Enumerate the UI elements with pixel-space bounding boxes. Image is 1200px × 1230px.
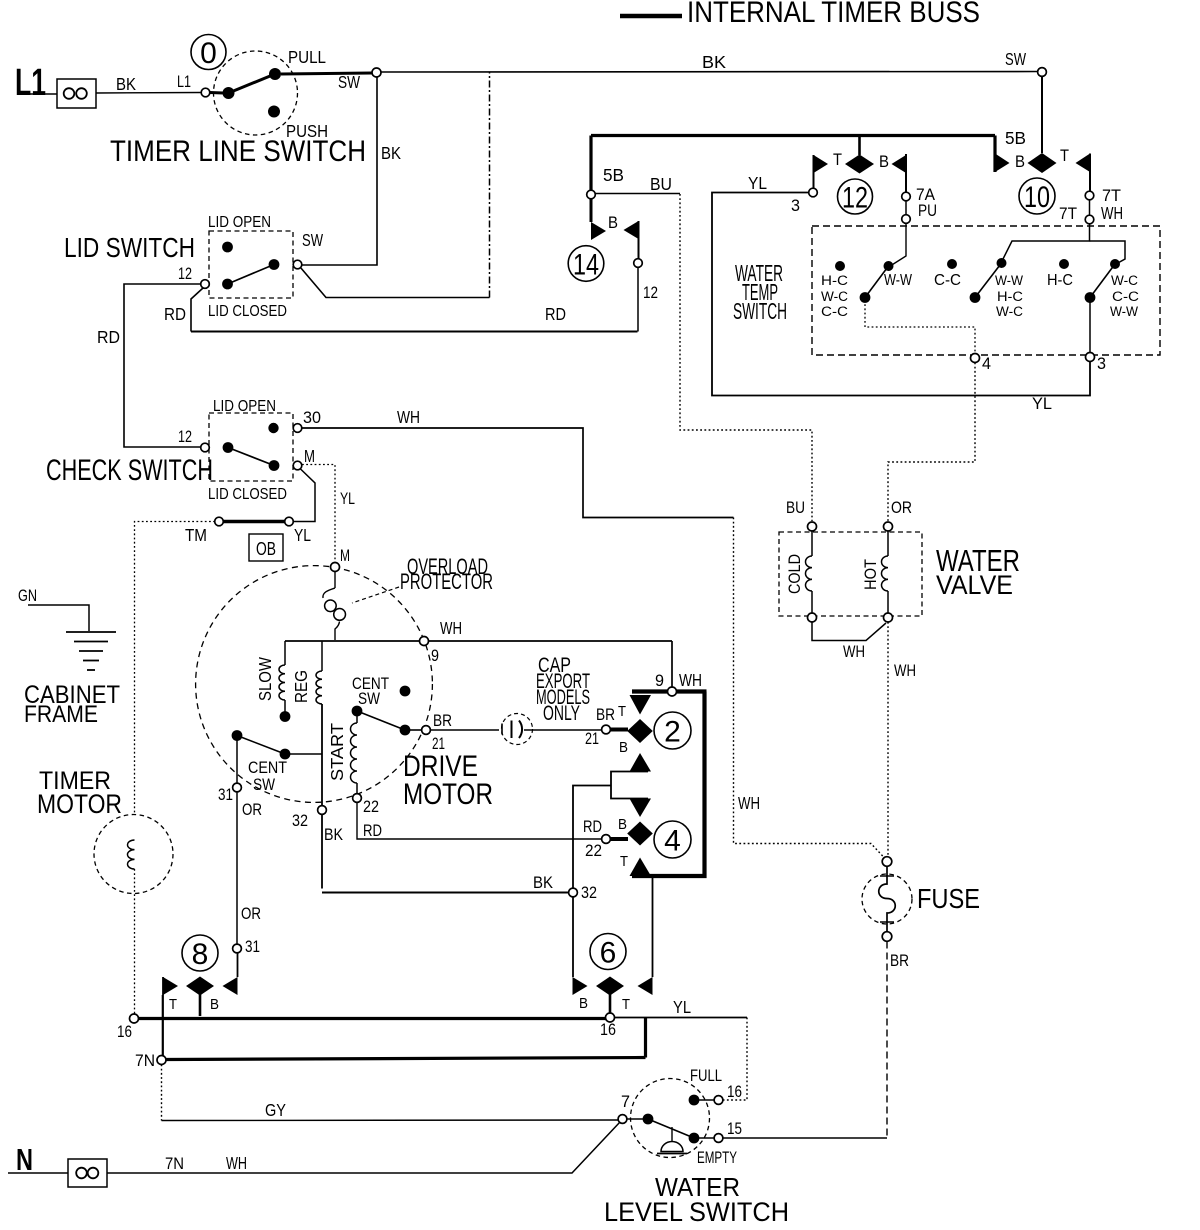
label BK top <box>702 52 726 72</box>
terminal 7T WH <box>1085 215 1094 224</box>
svg-text:16: 16 <box>117 1023 132 1041</box>
title WATER LEVEL SWITCH <box>604 1172 789 1227</box>
wire rail 16 YL extension <box>615 1017 748 1019</box>
capacitor C1 <box>502 714 533 745</box>
label CENT SW right <box>352 675 389 708</box>
label YL top <box>748 173 767 193</box>
svg-text:16: 16 <box>727 1083 742 1101</box>
motor terminal 32 <box>318 806 327 815</box>
svg-text:SW: SW <box>358 690 380 708</box>
label H-C <box>1047 272 1073 289</box>
cam 8 follower diamond <box>186 977 214 996</box>
wire FULL contact to 16 <box>699 1099 714 1101</box>
svg-text:YL: YL <box>294 525 311 545</box>
cam 2 B contact arrow <box>630 753 652 772</box>
svg-text:W-W: W-W <box>884 272 912 289</box>
temp switch terminal 3 <box>1086 353 1095 362</box>
drive motor dashed housing <box>196 566 433 803</box>
level switch terminal 15 <box>714 1134 723 1143</box>
label 32 (node) <box>581 884 597 902</box>
wire BK drop to lid switch <box>302 77 378 265</box>
svg-text:MOTOR: MOTOR <box>403 778 493 811</box>
svg-text:YL: YL <box>340 490 355 508</box>
timer line switch terminal L1 <box>201 88 210 97</box>
terminal L1 label <box>15 62 46 104</box>
label BR (connector) <box>596 706 615 724</box>
label 15 <box>727 1120 742 1138</box>
wire TM to timer motor <box>135 522 216 816</box>
cam 6 follower diamond <box>596 977 624 996</box>
wire GY run <box>162 1119 619 1122</box>
wire cam 14 terminal 12 to RD run <box>637 268 639 332</box>
svg-text:7T: 7T <box>1059 205 1077 223</box>
svg-text:C-C: C-C <box>821 304 848 319</box>
label B (cam 2) <box>619 739 628 756</box>
wire 7N rail riser to 16 rail <box>644 1018 647 1058</box>
svg-text:LID CLOSED: LID CLOSED <box>208 486 287 503</box>
temp switch contact W-C upper <box>1110 259 1120 269</box>
svg-text:0: 0 <box>200 37 217 70</box>
svg-text:7N: 7N <box>135 1052 155 1070</box>
svg-text:SW: SW <box>338 72 360 92</box>
label 21 (motor) <box>432 735 445 753</box>
motor terminal 21 <box>422 726 431 735</box>
svg-text:BU: BU <box>786 499 805 517</box>
svg-text:3: 3 <box>791 197 800 215</box>
svg-text:TM: TM <box>185 525 207 545</box>
timer line switch common stub <box>210 91 223 95</box>
wire RD lid sw 12 to check sw 12 <box>124 284 201 447</box>
svg-text:START: START <box>327 723 347 781</box>
wire 5B drop to node <box>589 136 592 191</box>
svg-text:SW: SW <box>1005 49 1026 69</box>
check switch terminal 30 <box>293 424 302 433</box>
wire cam 6 stem to terminal 16 <box>609 991 612 1013</box>
svg-text:OR: OR <box>242 801 262 819</box>
svg-text:BK: BK <box>324 826 343 844</box>
timer cam 14 circle <box>568 246 604 282</box>
label SLOW <box>255 657 275 701</box>
timer cam 12 follower diamond <box>845 155 874 174</box>
cabinet frame ground symbol <box>66 632 116 670</box>
svg-text:LID SWITCH: LID SWITCH <box>64 232 195 263</box>
cam 12 terminal 3 <box>809 188 818 197</box>
cam 8 terminal 31 <box>233 944 242 953</box>
motor terminal 22 <box>353 794 362 803</box>
svg-text:10: 10 <box>1024 181 1050 214</box>
svg-text:M: M <box>340 547 350 565</box>
label WH (terminal 9) <box>440 618 462 638</box>
svg-text:BR: BR <box>890 952 909 970</box>
level switch EMPTY contact <box>689 1133 700 1144</box>
label T (cam 2) <box>618 703 626 720</box>
label FUSE <box>917 883 980 914</box>
svg-text:12: 12 <box>178 265 192 283</box>
svg-text:31: 31 <box>218 786 233 804</box>
wire cam 12 B bar to terminal 7A <box>905 154 907 192</box>
label 16 left <box>117 1023 132 1041</box>
label BR (21) <box>433 712 452 730</box>
label 12 (lid switch) <box>178 265 192 283</box>
wire cam 8 B bar to 31 <box>237 953 239 977</box>
wire WH from check switch 30 <box>302 428 734 518</box>
svg-text:OB: OB <box>256 539 276 559</box>
svg-text:TIMER LINE SWITCH: TIMER LINE SWITCH <box>110 135 366 168</box>
svg-text:INTERNAL TIMER BUSS: INTERNAL TIMER BUSS <box>687 0 980 29</box>
svg-text:EMPTY: EMPTY <box>697 1149 737 1167</box>
water valve hot lower terminal <box>884 613 893 622</box>
wire contact to terminal 21 <box>405 729 421 731</box>
water level switch dashed housing <box>631 1079 710 1158</box>
timer cam 0 circle <box>191 35 226 70</box>
temp switch contact C-C <box>947 259 957 269</box>
check switch closed contact <box>269 460 280 471</box>
label T (cam 10) <box>1060 147 1069 165</box>
svg-text:WH: WH <box>440 618 462 638</box>
motor terminal M <box>331 563 340 572</box>
svg-text:PROTECTOR: PROTECTOR <box>400 569 493 594</box>
svg-text:B: B <box>210 996 219 1013</box>
svg-text:OR: OR <box>241 905 261 923</box>
level switch terminal 7 <box>618 1115 627 1124</box>
temp switch contact H-C <box>1059 259 1069 269</box>
terminal 16 left <box>130 1014 139 1023</box>
svg-text:L1: L1 <box>15 62 46 104</box>
wire BR fuse riser <box>886 942 888 1139</box>
timer line switch terminal SW <box>372 68 381 77</box>
svg-text:WH: WH <box>1101 203 1123 223</box>
svg-text:T: T <box>169 996 177 1013</box>
svg-text:YL: YL <box>673 997 691 1017</box>
svg-text:WH: WH <box>397 407 420 427</box>
wire reg winding down to node 32 <box>321 704 323 889</box>
label YL (TM bar) <box>294 525 311 545</box>
timer cam 10 follower diamond <box>1028 153 1057 173</box>
node 5B <box>587 190 596 199</box>
svg-text:FUSE: FUSE <box>917 883 980 914</box>
svg-text:GN: GN <box>18 587 37 605</box>
water valve cold lower terminal <box>808 613 817 622</box>
label 9 (connector) <box>655 672 664 690</box>
overload protector <box>323 572 346 641</box>
label 22 (connector) <box>585 842 602 860</box>
label PU <box>918 202 937 220</box>
label 7A <box>916 186 935 204</box>
wire 7 to common <box>627 1118 643 1120</box>
terminal TM <box>215 517 224 526</box>
level switch FULL contact <box>689 1095 700 1106</box>
label GY <box>265 1100 286 1120</box>
wire 15 to BR riser <box>723 1137 887 1139</box>
pressure dome float <box>657 1127 687 1154</box>
title WATER TEMP SWITCH <box>733 260 787 324</box>
svg-text:COLD: COLD <box>786 554 804 594</box>
wire N lead-in <box>8 1172 68 1174</box>
water valve cold solenoid <box>805 531 812 613</box>
cam 2 follower diamond <box>627 719 653 743</box>
label YL (rail) <box>673 997 691 1017</box>
wire rail 7N <box>166 1058 646 1060</box>
label COLD <box>786 554 804 594</box>
svg-text:VALVE: VALVE <box>936 570 1013 600</box>
centrifugal switch left pivot <box>232 730 243 741</box>
label T (cam 4) <box>620 853 628 870</box>
temp switch contact H-C/W-C/C-C <box>835 261 845 271</box>
label RD (22) <box>363 822 382 840</box>
labels H-C W-C C-C <box>821 273 848 319</box>
svg-text:7: 7 <box>621 1093 630 1111</box>
label WH under valve <box>843 643 865 661</box>
temp switch arm 2 <box>975 263 1002 298</box>
svg-text:21: 21 <box>585 730 599 748</box>
label B (cam 6) <box>579 995 588 1012</box>
timer cam 8 circle <box>182 935 218 971</box>
centrifugal switch left contact <box>280 749 291 760</box>
terminal 16 right <box>606 1013 615 1022</box>
timer cam 12 T contact arrow <box>814 155 829 173</box>
temp switch arm 1 <box>865 266 889 298</box>
label L1 terminal <box>177 73 191 91</box>
title CABINET FRAME <box>24 681 120 728</box>
wire cent sw pivot to terminal 31 <box>236 740 238 783</box>
slow winding <box>279 641 285 712</box>
cam 8 B contact arrow <box>223 977 238 995</box>
wire GN to ground <box>28 605 89 631</box>
wire YL from cam 12 terminal 3 <box>712 193 1090 396</box>
cam 4 follower diamond <box>627 822 653 846</box>
svg-text:W-C: W-C <box>1111 273 1138 288</box>
svg-text:W-W: W-W <box>995 273 1023 288</box>
svg-text:8: 8 <box>192 938 209 971</box>
svg-text:ONLY: ONLY <box>543 702 580 725</box>
svg-text:B: B <box>619 739 628 756</box>
label 32 (motor) <box>292 812 308 830</box>
label WH valve drop <box>894 662 916 680</box>
motor top rail WH <box>285 640 672 642</box>
svg-text:9: 9 <box>655 672 664 690</box>
OB designation box <box>249 534 283 561</box>
check switch arm <box>228 448 274 466</box>
label 7T right <box>1102 187 1121 205</box>
timer cam 6 circle <box>590 934 626 970</box>
svg-text:PULL: PULL <box>288 47 326 67</box>
centrifugal switch right pivot <box>352 706 363 717</box>
centrifugal switch right open contact <box>400 686 411 697</box>
wire SW drop to cam 10 <box>1041 77 1043 154</box>
wire WH riser to fuse <box>734 518 885 859</box>
check switch common contact <box>223 442 234 453</box>
svg-text:9: 9 <box>431 647 439 665</box>
timer cam 14 B contact arrow <box>624 221 639 239</box>
check switch terminal M <box>293 461 302 470</box>
svg-text:WH: WH <box>226 1153 247 1173</box>
centrifugal switch left arm <box>237 736 285 755</box>
label PUSH <box>286 121 328 141</box>
svg-text:SW: SW <box>253 776 275 794</box>
label M above motor <box>340 547 350 565</box>
wire BU from 5B node <box>596 193 681 195</box>
label 21 (connector) <box>585 730 599 748</box>
svg-text:14: 14 <box>573 248 599 281</box>
svg-text:H-C: H-C <box>821 273 848 288</box>
lid switch arm <box>228 265 275 285</box>
svg-text:H-C: H-C <box>1047 272 1073 289</box>
centrifugal switch right arm <box>357 711 405 730</box>
svg-text:22: 22 <box>363 798 379 816</box>
svg-text:WH: WH <box>894 662 916 680</box>
svg-text:T: T <box>833 151 842 169</box>
svg-text:T: T <box>620 853 628 870</box>
terminal PU <box>902 215 911 224</box>
temp switch arm 2 pivot <box>970 292 981 303</box>
svg-text:B: B <box>618 816 627 833</box>
wire valve commons WH <box>812 622 886 641</box>
svg-text:BK: BK <box>116 74 136 94</box>
svg-text:W-W: W-W <box>1110 304 1138 319</box>
label BK <box>116 74 136 94</box>
svg-text:WH: WH <box>738 793 760 813</box>
slow winding end contact <box>280 711 291 722</box>
svg-text:31: 31 <box>245 938 260 956</box>
svg-text:21: 21 <box>432 735 445 753</box>
label 7 <box>621 1093 630 1111</box>
svg-text:LID OPEN: LID OPEN <box>208 214 271 231</box>
label 5B (cam 10) <box>1005 128 1026 148</box>
label 9 <box>431 647 439 665</box>
label LID CLOSED (lid switch) <box>208 303 287 320</box>
label 7N (neutral) <box>165 1155 184 1173</box>
wire terminal 4 to OR <box>888 363 975 523</box>
svg-text:12: 12 <box>178 428 192 446</box>
label BK (32) <box>324 826 343 844</box>
lid switch terminal SW <box>293 260 302 269</box>
svg-text:5B: 5B <box>1005 128 1026 148</box>
svg-text:T: T <box>1060 147 1069 165</box>
cam 14 terminal 12 <box>634 259 643 268</box>
wire cam 8 T bar down to 7N <box>162 977 164 1056</box>
label BK bottom <box>533 874 553 892</box>
svg-text:WH: WH <box>843 643 865 661</box>
svg-text:15: 15 <box>727 1120 742 1138</box>
svg-text:3: 3 <box>1097 355 1106 373</box>
svg-text:L1: L1 <box>177 73 191 91</box>
connector block frame <box>632 692 707 877</box>
svg-text:LEVEL SWITCH: LEVEL SWITCH <box>604 1197 789 1227</box>
svg-text:RD: RD <box>97 327 120 347</box>
wire L1 lead-in <box>26 93 57 95</box>
centrifugal switch right contact <box>400 725 411 736</box>
svg-text:32: 32 <box>292 812 308 830</box>
svg-text:HOT: HOT <box>862 559 880 590</box>
label 22 (motor) <box>363 798 379 816</box>
wire 7T to WH terminal <box>1089 200 1091 215</box>
wire cam 10 T bar to terminal 7T <box>1089 154 1091 192</box>
motor terminal 9 <box>420 637 429 646</box>
timer motor feed bar TM-YL <box>223 520 285 524</box>
labels W-W H-C W-C <box>995 273 1023 319</box>
svg-text:RD: RD <box>164 304 186 324</box>
svg-text:RD: RD <box>545 304 566 324</box>
svg-text:SW: SW <box>302 230 323 250</box>
svg-text:LID CLOSED: LID CLOSED <box>208 303 287 320</box>
wire cam 12 T bar to terminal 3 <box>813 155 815 188</box>
connector plug L1 <box>57 79 96 108</box>
title DRIVE MOTOR <box>403 750 493 811</box>
connector plug N <box>68 1159 107 1187</box>
wire temp switch pivot 3 to terminal 3 <box>1089 300 1091 353</box>
label BK vertical <box>381 143 401 163</box>
lid switch open contact <box>222 242 233 253</box>
water temp switch dashed housing <box>812 226 1160 355</box>
svg-text:4: 4 <box>664 824 681 857</box>
label B (cam 12) <box>879 153 889 171</box>
svg-text:OR: OR <box>891 499 912 517</box>
label T (cam 12) <box>833 151 842 169</box>
wire 7T WH into temp switch <box>1002 224 1090 262</box>
wire YL drop to level switch 16 <box>723 1018 747 1101</box>
connector B bracket <box>611 772 648 799</box>
water valve dashed housing <box>779 532 922 616</box>
svg-text:BU: BU <box>650 174 672 194</box>
svg-text:FULL: FULL <box>690 1067 722 1085</box>
label 3 (cam 12) <box>791 197 800 215</box>
wire cam 6 T riser <box>652 876 654 977</box>
overload protector leader line <box>352 587 399 603</box>
label SW <box>338 72 360 92</box>
timer cam 10 T contact arrow <box>1076 154 1091 173</box>
label LID OPEN (lid switch) <box>208 214 271 231</box>
label RD left riser <box>97 327 120 347</box>
timer line switch PULL contact <box>269 68 281 80</box>
temp switch terminal 4 <box>971 354 980 363</box>
wire check M to motor M <box>302 465 335 563</box>
svg-text:PU: PU <box>918 202 937 220</box>
level switch arm <box>648 1119 694 1138</box>
label OR lower <box>241 905 261 923</box>
fuse top terminal <box>882 857 892 867</box>
check switch terminal 12 <box>201 443 210 452</box>
wire PULL contact to SW terminal <box>281 73 372 74</box>
wire GY drop <box>161 1065 163 1121</box>
label EMPTY <box>697 1149 737 1167</box>
title LID SWITCH <box>64 232 195 263</box>
wire 22 to connector <box>357 803 602 840</box>
svg-text:CHECK SWITCH: CHECK SWITCH <box>46 454 213 487</box>
label FULL <box>690 1067 722 1085</box>
svg-text:MOTOR: MOTOR <box>37 789 122 819</box>
label OVERLOAD PROTECTOR <box>400 554 493 594</box>
wire cam 12 stem to 5B buss <box>858 137 861 155</box>
wire cam 14 B bar to terminal 12 <box>638 221 640 259</box>
svg-text:30: 30 <box>303 409 321 427</box>
timer cam 12 circle <box>838 179 873 214</box>
label BR (fuse) <box>890 952 909 970</box>
label OR at valve <box>891 499 912 517</box>
label YL (M riser) <box>340 490 355 508</box>
wire BU riser to water valve <box>680 194 812 521</box>
wire motor bottom rail BK <box>322 892 569 894</box>
label WH (7T) <box>1101 203 1123 223</box>
title WATER VALVE <box>936 543 1020 600</box>
svg-text:B: B <box>579 995 588 1012</box>
label 16 (level switch) <box>727 1083 742 1101</box>
wire temp switch pivot 1 to terminal 4 <box>865 300 975 354</box>
lid switch common contact <box>222 279 233 290</box>
timer cam 2 circle <box>654 712 691 749</box>
svg-text:YL: YL <box>748 173 767 193</box>
label CENT SW left <box>248 759 287 794</box>
water valve hot solenoid <box>881 531 888 613</box>
